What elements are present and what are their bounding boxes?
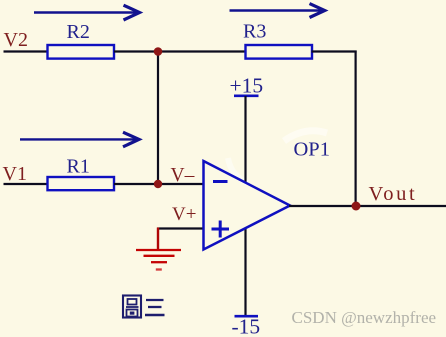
- ground bar 4: [156, 268, 162, 270]
- svg-text:V1: V1: [3, 163, 27, 185]
- -15 power rail bar: [235, 315, 259, 318]
- op-amp U1 triangle: [204, 161, 291, 250]
- wire +15 rail to op-amp top: [244, 96, 246, 182]
- wire op-amp bottom to -15 rail: [244, 228, 246, 316]
- wire feedback vertical down to output node: [355, 51, 357, 207]
- svg-text:+15: +15: [230, 74, 264, 98]
- ground stem: [157, 228, 159, 251]
- node B junction dot (inverting input): [154, 180, 162, 188]
- op-amp inverting pin minus sign: [213, 180, 228, 183]
- +15 power rail bar: [234, 95, 259, 98]
- svg-text:V2: V2: [4, 29, 28, 51]
- output node junction dot: [352, 202, 361, 211]
- svg-text:R2: R2: [67, 21, 90, 43]
- svg-text:V+: V+: [172, 204, 196, 225]
- op-amp non-inverting pin plus sign: [212, 221, 230, 238]
- node A junction dot: [154, 47, 163, 56]
- ground bar 3: [151, 261, 167, 263]
- svg-text:CSDN @newzhpfree: CSDN @newzhpfree: [292, 308, 437, 327]
- current arrow 2 (above R3): [230, 4, 325, 18]
- svg-text:OP1: OP1: [294, 139, 330, 161]
- ground bar 1: [136, 249, 181, 251]
- wire op-amp output to right edge: [289, 205, 446, 207]
- wire node A vertical down to inverting input: [157, 52, 159, 185]
- svg-text:-15: -15: [232, 315, 261, 337]
- current arrow 1 (above R2): [34, 5, 140, 20]
- ground bar 2: [144, 255, 175, 257]
- svg-text:R1: R1: [67, 156, 90, 178]
- wire R1 to inverting input of op-amp: [114, 183, 204, 185]
- wire R2 to node A and on to R3: [114, 50, 246, 52]
- resistor R2 body: [48, 45, 115, 59]
- wire V1 input to R1: [4, 183, 49, 185]
- caption 圖三 (Figure 3), drawn glyphs: [123, 296, 165, 318]
- resistor R1 body: [48, 177, 115, 190]
- wire R3 to feedback corner: [312, 50, 357, 52]
- resistor R3 body: [246, 45, 313, 59]
- svg-text:R3: R3: [243, 21, 266, 43]
- wire non-inverting input: [157, 227, 204, 229]
- svg-text:Vout: Vout: [369, 183, 418, 205]
- wire V2 input to R2: [4, 50, 49, 52]
- current arrow 3 (above R1): [20, 132, 139, 147]
- svg-text:V–: V–: [171, 165, 195, 186]
